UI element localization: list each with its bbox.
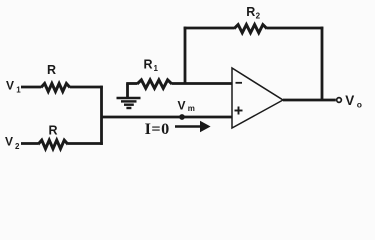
wire junction to op-amp plus input (node Vm net) <box>102 116 233 119</box>
svg-text:R: R <box>47 63 56 77</box>
svg-text:I=0: I=0 <box>145 120 170 138</box>
node V2 (input terminal label V2) <box>5 135 20 152</box>
wire feedback right riser to output <box>321 27 324 100</box>
node Vm junction dot <box>179 114 185 120</box>
wire feedback tap vertical (left riser) <box>184 27 187 84</box>
svg-text:m: m <box>188 104 195 113</box>
resistor R (V2 input) <box>38 140 68 149</box>
svg-text:1: 1 <box>16 85 21 94</box>
value label R (bottom input resistor) <box>49 124 58 138</box>
wire feedback top rail (right of R2) <box>267 27 323 30</box>
wire top resistor to junction <box>70 86 103 89</box>
svg-text:R: R <box>49 124 58 138</box>
resistor R (V1 input) <box>41 84 70 92</box>
wire bottom resistor to junction <box>68 142 103 145</box>
ground <box>117 84 141 109</box>
svg-text:R: R <box>246 5 255 19</box>
node V1 (input terminal label V1) <box>6 79 21 95</box>
wire V2 to resistor R (bottom) <box>21 142 38 145</box>
value label R1 <box>144 58 159 74</box>
svg-text:V: V <box>6 79 14 93</box>
value label R2 <box>246 5 260 20</box>
node Vo label <box>345 93 362 109</box>
wire V1 to resistor R (top) <box>21 86 41 89</box>
wire feedback top rail (left of R2) <box>184 27 234 30</box>
current direction arrow <box>175 121 211 133</box>
svg-text:1: 1 <box>154 64 159 73</box>
node Vm label <box>178 99 195 113</box>
svg-text:2: 2 <box>256 11 261 20</box>
svg-text:R: R <box>144 58 153 72</box>
resistor R2 (feedback) <box>234 25 267 33</box>
op-amp U1 inverting input minus sign <box>236 82 243 84</box>
svg-text:V: V <box>5 135 13 149</box>
svg-text:o: o <box>357 100 362 110</box>
wire op-amp output <box>283 99 336 102</box>
wire R1 to op-amp minus input <box>172 82 232 85</box>
svg-text:2: 2 <box>15 142 20 151</box>
value label R (top input resistor) <box>47 63 56 77</box>
op-amp U1 <box>232 68 283 128</box>
resistor R1 <box>137 80 172 88</box>
wire ground corner to R1 <box>126 82 137 85</box>
label I=0 (input current) <box>145 120 170 138</box>
svg-text:V: V <box>345 93 354 108</box>
svg-text:V: V <box>178 99 186 113</box>
node Vo output terminal circle <box>337 98 342 103</box>
op-amp U1 non-inverting input plus sign <box>235 107 243 115</box>
wire junction vertical (V1/V2 tie) <box>100 86 103 145</box>
